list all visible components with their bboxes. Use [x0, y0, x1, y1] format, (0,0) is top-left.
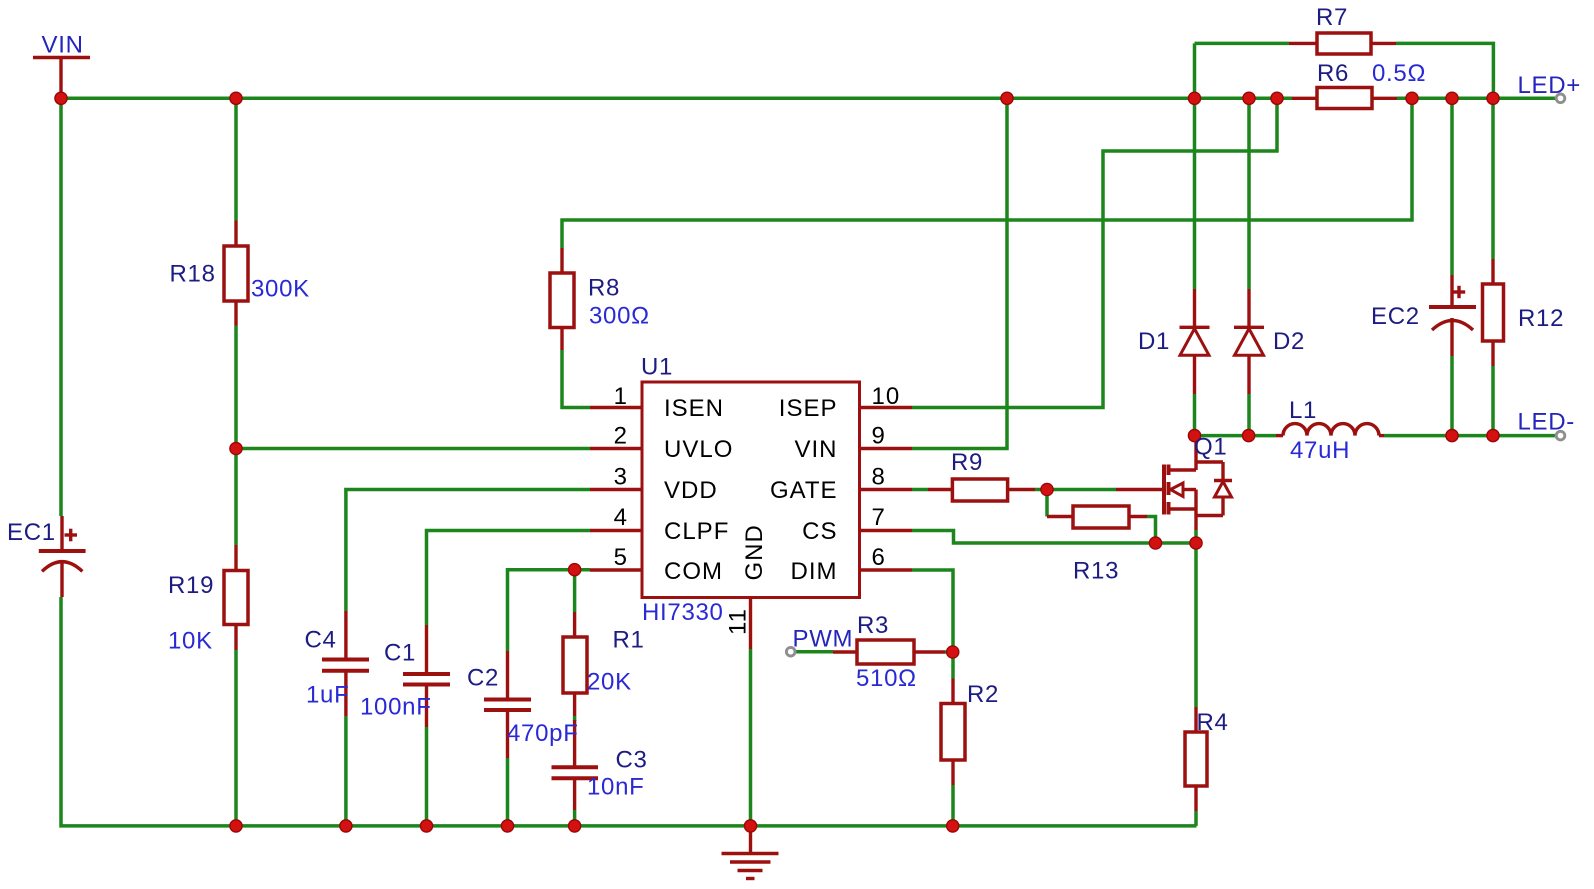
svg-text:0.5Ω: 0.5Ω: [1372, 60, 1426, 87]
svg-text:C4: C4: [305, 627, 337, 654]
svg-text:VIN: VIN: [42, 32, 84, 59]
svg-text:R19: R19: [168, 572, 214, 599]
svg-text:9: 9: [872, 423, 886, 450]
svg-text:47uH: 47uH: [1290, 437, 1350, 464]
svg-text:8: 8: [872, 464, 886, 491]
svg-text:EC1: EC1: [7, 519, 56, 546]
svg-text:R1: R1: [613, 627, 645, 654]
svg-text:R7: R7: [1316, 4, 1348, 31]
svg-text:R4: R4: [1197, 709, 1229, 736]
svg-text:LED+: LED+: [1518, 72, 1582, 99]
svg-text:R9: R9: [951, 449, 983, 476]
svg-text:VDD: VDD: [664, 477, 718, 504]
svg-text:10: 10: [872, 383, 901, 410]
svg-text:100nF: 100nF: [360, 694, 432, 721]
svg-text:EC2: EC2: [1371, 303, 1420, 330]
svg-text:C3: C3: [616, 747, 648, 774]
svg-text:20K: 20K: [587, 669, 632, 696]
svg-text:R12: R12: [1518, 305, 1564, 332]
svg-text:7: 7: [872, 504, 886, 531]
svg-text:6: 6: [872, 544, 886, 571]
svg-text:470pF: 470pF: [507, 720, 579, 747]
svg-text:C2: C2: [467, 665, 499, 692]
svg-text:1uF: 1uF: [306, 682, 349, 709]
svg-text:R2: R2: [967, 681, 999, 708]
svg-text:R18: R18: [170, 261, 216, 288]
svg-text:3: 3: [614, 464, 628, 491]
svg-text:D2: D2: [1273, 328, 1305, 355]
svg-text:C1: C1: [384, 640, 416, 667]
svg-text:U1: U1: [641, 354, 673, 381]
svg-text:LED-: LED-: [1518, 409, 1575, 436]
svg-text:D1: D1: [1138, 328, 1170, 355]
svg-text:GATE: GATE: [770, 477, 838, 504]
svg-text:CS: CS: [802, 518, 837, 545]
svg-text:4: 4: [614, 504, 628, 531]
svg-text:ISEP: ISEP: [779, 395, 838, 422]
svg-text:COM: COM: [664, 558, 723, 585]
svg-text:R3: R3: [857, 612, 889, 639]
svg-text:L1: L1: [1289, 397, 1317, 424]
svg-text:1: 1: [614, 383, 628, 410]
svg-text:VIN: VIN: [794, 436, 837, 463]
svg-text:UVLO: UVLO: [664, 436, 733, 463]
svg-text:R8: R8: [588, 275, 620, 302]
svg-text:DIM: DIM: [791, 558, 838, 585]
svg-text:300K: 300K: [251, 276, 310, 303]
svg-text:510Ω: 510Ω: [856, 665, 917, 692]
svg-text:HI7330: HI7330: [642, 599, 724, 626]
svg-text:R6: R6: [1317, 60, 1349, 87]
svg-text:5: 5: [614, 544, 628, 571]
svg-text:10K: 10K: [168, 628, 213, 655]
svg-text:Q1: Q1: [1194, 434, 1227, 461]
svg-text:11: 11: [725, 608, 752, 635]
svg-text:ISEN: ISEN: [664, 395, 724, 422]
svg-text:PWM: PWM: [793, 626, 854, 653]
svg-text:R13: R13: [1073, 558, 1119, 585]
svg-text:CLPF: CLPF: [664, 518, 729, 545]
svg-text:10nF: 10nF: [587, 774, 645, 801]
svg-text:300Ω: 300Ω: [589, 303, 650, 330]
svg-text:GND: GND: [741, 524, 768, 580]
svg-text:2: 2: [614, 423, 628, 450]
